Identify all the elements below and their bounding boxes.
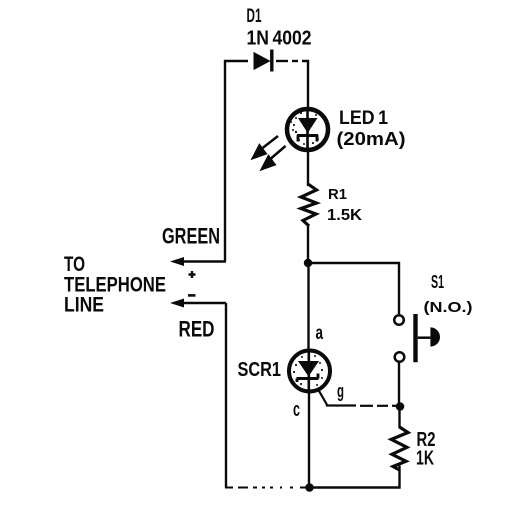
wire: SCR1 gate to junction (partly faint) <box>318 388 398 405</box>
label g (gate pin) <box>337 381 344 401</box>
svg-text:1.5K: 1.5K <box>327 207 362 224</box>
svg-text:LED 1: LED 1 <box>339 108 388 129</box>
wire: junction to S1 top contact <box>308 263 399 314</box>
label TO TELEPHONE LINE <box>64 253 166 317</box>
svg-text:R1: R1 <box>328 186 347 203</box>
svg-text:(20mA): (20mA) <box>337 129 406 149</box>
svg-text:RED: RED <box>179 317 215 342</box>
label D1 value 1N4002 <box>247 28 312 50</box>
wire: SCR1 anode from junction <box>307 263 309 351</box>
label - polarity <box>188 294 196 297</box>
label R1 value 1.5K <box>327 207 362 224</box>
wire: R1 bottom to junction node <box>307 224 309 263</box>
svg-text:LINE: LINE <box>64 294 104 317</box>
svg-text:1N 4002: 1N 4002 <box>247 28 312 50</box>
label S1 <box>431 272 444 292</box>
svg-text:GREEN: GREEN <box>162 224 220 249</box>
label a (anode pin) <box>316 323 324 344</box>
label R2 <box>417 429 436 451</box>
switch S1 (push-button N.O.) <box>394 314 440 362</box>
svg-text:g: g <box>337 381 344 401</box>
label LED1 value (20mA) <box>337 129 406 149</box>
label R1 <box>328 186 347 203</box>
node: cathode / bottom rail junction <box>305 483 314 492</box>
resistor R2 <box>391 427 408 470</box>
wire: junction down to R2 <box>398 407 400 429</box>
label GREEN <box>162 224 220 249</box>
label c (cathode pin) <box>293 399 300 421</box>
svg-text:1K: 1K <box>416 448 434 470</box>
node: S1 / SCR1 gate / R2 junction <box>396 402 405 411</box>
wire: bottom rail to left rail (faint dashes in scan) <box>225 487 309 489</box>
wire: SCR1 cathode down to bottom wire <box>308 394 310 488</box>
svg-text:c: c <box>293 399 300 421</box>
wire: left rail from D1 anode down to GREEN arrow <box>225 61 248 261</box>
svg-text:D1: D1 <box>247 6 262 27</box>
wire: RED lead with arrow to telephone line <box>170 299 226 308</box>
label D1 designator <box>247 6 262 27</box>
label R2 value 1K <box>416 448 434 470</box>
svg-text:S1: S1 <box>431 272 444 292</box>
wire: S1 bottom contact to gate/R2 junction <box>398 363 400 404</box>
svg-text:SCR1: SCR1 <box>238 359 282 381</box>
wire: left rail from RED arrow down to bottom wire <box>225 303 227 488</box>
label RED <box>179 317 215 342</box>
label LED1 <box>339 108 388 129</box>
wire: GREEN lead with arrow to telephone line <box>170 257 226 266</box>
node: R1 / SCR1 anode / S1 branch junction <box>304 259 312 267</box>
svg-text:(N.O.): (N.O.) <box>424 299 473 316</box>
wire: D1 cathode to top of right rail (dashed in scan) <box>276 61 308 107</box>
label SCR1 <box>238 359 282 381</box>
label + polarity <box>189 271 196 278</box>
wire: LED1 cathode to R1 top <box>307 152 309 186</box>
SCR1 <box>289 349 330 394</box>
LED1 <box>287 107 328 152</box>
wire: R2 bottom to bottom rail <box>310 466 400 488</box>
LED1 light-emission arrows <box>253 136 286 169</box>
svg-text:a: a <box>316 323 324 344</box>
diode D1 <box>254 50 272 72</box>
label S1 (N.O.) <box>424 299 473 316</box>
resistor R1 <box>301 184 317 226</box>
